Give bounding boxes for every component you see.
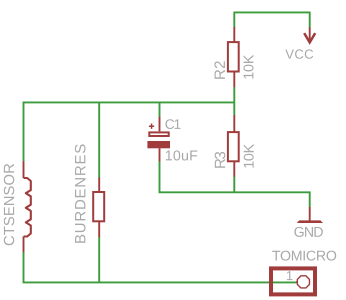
svg-text:C1: C1 xyxy=(165,117,182,132)
resistor BURDENRES body xyxy=(93,192,104,221)
svg-text:10K: 10K xyxy=(242,143,258,168)
svg-text:GND: GND xyxy=(294,225,324,241)
resistor R2 body xyxy=(228,42,239,71)
wire: R3 bottom to lower rail xyxy=(233,177,235,193)
svg-text:10uF: 10uF xyxy=(165,148,198,164)
capacitor C1 bottom plate xyxy=(147,141,170,148)
svg-text:R3: R3 xyxy=(212,151,229,169)
wire: C1 top drop xyxy=(159,102,161,117)
resistor R2 pin bottom xyxy=(233,72,235,88)
resistor R3 body xyxy=(228,132,239,161)
svg-text:VCC: VCC xyxy=(285,47,314,62)
wire: bottom rail from CTSENSOR bottom to TOMICRO pin xyxy=(24,252,297,282)
svg-text:1: 1 xyxy=(286,268,293,283)
capacitor C1 pin top xyxy=(159,117,161,132)
connector TOMICRO body xyxy=(271,268,315,294)
svg-text:CTSENSOR: CTSENSOR xyxy=(2,163,18,246)
ground symbol GND stem xyxy=(309,207,311,221)
wire: BURDENRES top drop xyxy=(98,102,100,177)
wire: R2 bottom to R3 top through middle rail xyxy=(233,87,235,115)
resistor BURDENRES pin bottom xyxy=(98,222,100,238)
connector TOMICRO pin 1 lead xyxy=(296,281,297,283)
inductor CTSENSOR coil xyxy=(24,178,31,237)
svg-text:TOMICRO: TOMICRO xyxy=(272,249,337,265)
resistor R3 pin bottom xyxy=(233,161,235,176)
inductor CTSENSOR pin bottom xyxy=(23,237,25,253)
svg-text:BURDENRES: BURDENRES xyxy=(72,144,89,244)
inductor CTSENSOR pin top xyxy=(23,161,25,178)
power symbol VCC stem xyxy=(309,27,311,42)
connector TOMICRO pin 1 circle xyxy=(297,276,309,288)
wire: BURDENRES bottom drop xyxy=(98,237,100,282)
svg-text:10K: 10K xyxy=(241,54,257,80)
capacitor C1 pin bottom xyxy=(159,148,161,161)
resistor R3 pin top xyxy=(233,115,235,132)
resistor BURDENRES pin top xyxy=(98,177,100,191)
wire: top rail to VCC xyxy=(234,12,309,27)
capacitor C1 top plate xyxy=(149,132,168,136)
ground symbol GND bar xyxy=(297,220,323,223)
power symbol VCC arrowhead xyxy=(304,33,315,42)
svg-text:R2: R2 xyxy=(212,60,229,80)
wire: lower rail from C1 bottom to GND drop xyxy=(160,161,310,207)
wire: middle rail node from CTSENSOR top across BURDENRES and C1 to R2/R3 junction xyxy=(24,102,235,161)
resistor R2 pin top xyxy=(233,27,235,43)
capacitor C1 plus sign xyxy=(149,124,154,129)
